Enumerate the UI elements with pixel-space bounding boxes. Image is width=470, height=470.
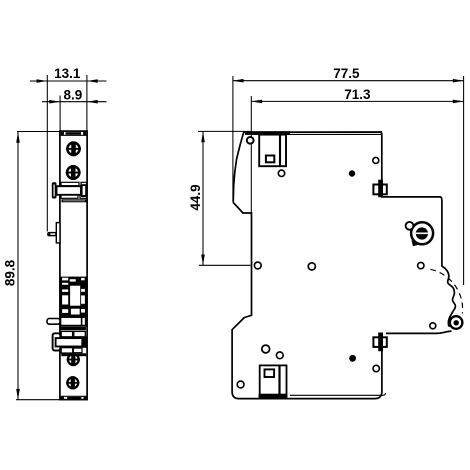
circle C4	[254, 262, 261, 269]
rows 331-337	[61, 331, 72, 336]
black dot lower	[349, 355, 356, 362]
bottom clip lower band	[259, 394, 288, 399]
dimension 71.3 arrows	[251, 100, 463, 104]
svg-text:8.9: 8.9	[64, 87, 83, 102]
inner top line	[254, 133, 381, 135]
dashed swing arc	[431, 269, 463, 313]
screw S4	[66, 376, 79, 389]
circle C2 below clip	[278, 170, 284, 176]
rows 347-353	[61, 348, 72, 353]
lower right dark block	[82, 337, 86, 348]
circle C6	[418, 262, 424, 268]
black bar below clamp	[62, 199, 87, 202]
bottom clip slot line	[278, 365, 280, 396]
upper pin arm	[56, 223, 60, 243]
bottom clip rect	[260, 365, 287, 396]
svg-text:71.3: 71.3	[344, 87, 371, 102]
screw S1	[66, 141, 81, 156]
left view body outline	[60, 131, 87, 400]
bottom rim band	[60, 396, 87, 399]
dimension 44.9 arrows	[201, 131, 205, 265]
circle C10	[373, 365, 379, 371]
dimension 71.3 dim line	[251, 100, 463, 102]
white windows: right column	[81, 278, 85, 280]
lower side tab	[373, 333, 386, 352]
screw S2	[66, 165, 81, 180]
screw with washer (right middle)	[406, 222, 434, 246]
upper side tab	[373, 180, 386, 198]
circle C8	[276, 352, 283, 359]
lower clamp bar	[56, 338, 83, 346]
svg-text:89.8: 89.8	[2, 259, 17, 286]
upper clamp right block	[81, 184, 87, 197]
screw S3	[67, 353, 80, 366]
top clip black band	[245, 131, 290, 135]
svg-text:13.1: 13.1	[54, 66, 81, 81]
circle C7	[262, 345, 270, 353]
extension line x=251.3	[250, 96, 252, 214]
circle C1 top-left	[247, 137, 254, 144]
dimension 89.8 dim line	[16, 132, 60, 400]
lower clamp pin	[47, 319, 60, 325]
bottom clip small square	[265, 369, 275, 377]
black dot upper	[349, 170, 355, 176]
dimension 13.1 arrows	[37, 79, 98, 83]
dimension 77.5 dim line	[233, 80, 464, 82]
dimension 13.1 dim line	[30, 80, 107, 82]
dimension 77.5 arrows	[233, 79, 464, 83]
dimension 44.9 dim line	[198, 131, 251, 265]
top clip small square	[266, 156, 274, 163]
circle C9	[237, 381, 244, 388]
lower latch T-piece	[53, 333, 61, 350]
circle C5	[308, 263, 315, 270]
circle C3	[373, 157, 379, 163]
white windows: left column	[62, 278, 68, 281]
upper pin	[47, 232, 56, 237]
top rim band	[60, 132, 87, 136]
extension line x=232.7	[232, 76, 234, 201]
black band under clamp	[60, 327, 86, 330]
inner bottom line	[290, 393, 386, 395]
hook beak blob	[448, 317, 452, 327]
pivot dot	[454, 320, 459, 325]
top clip slot line	[279, 135, 281, 166]
extension line x=463.6	[463, 76, 465, 285]
dimension 8.9 arrows	[49, 100, 97, 104]
dimension 8.9 dim line	[42, 101, 107, 103]
top clip rect	[259, 135, 286, 167]
white windows: middle	[70, 279, 76, 281]
extension line x=47.3	[46, 75, 48, 232]
upper clamp bar	[57, 186, 82, 195]
upper clamp screw T-piece	[52, 182, 57, 198]
lower clamp	[60, 317, 85, 326]
extension line x=60.1	[59, 96, 61, 132]
pivot ring	[450, 316, 463, 329]
extension line x=86.9	[86, 75, 88, 131]
svg-text:77.5: 77.5	[333, 66, 360, 81]
svg-text:44.9: 44.9	[188, 184, 203, 210]
upper terminal block rows	[61, 182, 87, 198]
black bar 353-356	[61, 353, 86, 356]
body outline lower part	[232, 203, 451, 399]
lower terminal black field	[60, 277, 86, 317]
dimension 89.8 arrows	[16, 132, 20, 400]
small circle near pivot	[430, 323, 436, 329]
right view body outline	[233, 132, 455, 317]
